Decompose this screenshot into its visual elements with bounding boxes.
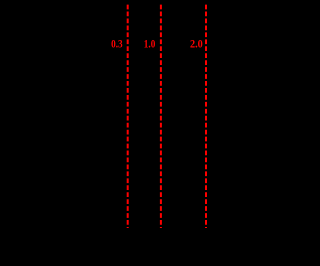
svg-text:0.3: 0.3: [111, 38, 123, 51]
svg-text:2.0: 2.0: [190, 38, 203, 51]
svg-text:1.0: 1.0: [144, 38, 156, 51]
